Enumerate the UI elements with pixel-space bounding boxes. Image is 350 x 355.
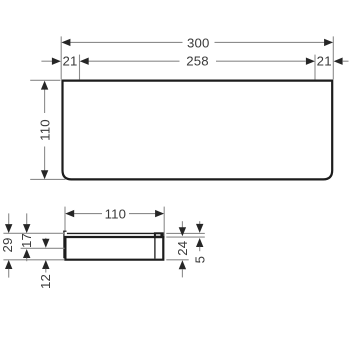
svg-text:12: 12 (38, 274, 53, 289)
dimension 12 bottom arrow (42, 260, 49, 269)
svg-text:110: 110 (105, 207, 127, 222)
dimension 29 top tail (8, 213, 10, 224)
extension line bottom for 29 and 12 (3, 259, 64, 261)
extension line right for 258 (314, 55, 316, 80)
svg-text:258: 258 (186, 54, 209, 69)
extension line left for 258 (79, 55, 81, 80)
dimension 5 bottom arrow (196, 238, 203, 247)
svg-text:5: 5 (192, 256, 207, 264)
dimension 258 left arrow (80, 58, 89, 65)
dimension 110 depth left arrow (65, 210, 74, 217)
side view front edge white notch (156, 234, 161, 235)
side view body outline (65, 237, 163, 260)
extension line left for 110 depth (64, 207, 66, 231)
dimension 12 bottom tail (45, 269, 47, 273)
dimension 300 line (66, 41, 183, 43)
dimension 258 right arrow (306, 58, 315, 65)
extension line right for 300 (332, 36, 334, 79)
dimension 258 line (88, 60, 179, 62)
side view plate front thick end (154, 232, 165, 238)
extension line top for 29 and 17 (3, 232, 64, 234)
extension line plate top for 5 (166, 232, 205, 234)
dimension 12 top tail (45, 238, 47, 239)
dimension 21 right tail (342, 60, 348, 62)
extension line bottom for 110 height (30, 178, 65, 180)
dimension 110 depth right arrow (155, 210, 164, 217)
dimension 24 top arrow (179, 227, 186, 236)
svg-text:29: 29 (0, 237, 15, 252)
dimension 12 top arrow (42, 239, 49, 248)
dimension 21 right arrow (334, 58, 343, 65)
extension line bottom for 24 (166, 259, 188, 261)
svg-text:17: 17 (19, 233, 34, 248)
extension line left for 300 (60, 36, 62, 79)
dimension 29 top arrow (5, 224, 12, 233)
side view back tab top (63, 230, 66, 232)
dimension 29 bottom tail (8, 269, 10, 278)
dimension 24 top tail (181, 221, 183, 228)
side view plate top line (67, 232, 164, 234)
dimension 110 height bottom arrow (41, 170, 48, 179)
dimension 24 bottom tail (181, 269, 183, 277)
dimension 300 left arrow (61, 39, 70, 46)
svg-text:110: 110 (37, 119, 52, 141)
dimension 5 top arrow (196, 224, 203, 233)
dimension 5 bottom tail (199, 247, 201, 251)
dimension 17 top arrow (23, 224, 30, 233)
dimension 24 bottom arrow (179, 260, 186, 269)
side view back tab left edge (63, 231, 65, 259)
svg-text:24: 24 (175, 241, 190, 256)
dimension 110 height line (44, 85, 46, 114)
extension line right for 110 depth (163, 207, 165, 236)
svg-text:21: 21 (62, 54, 77, 69)
dimension 300 right arrow (324, 39, 333, 46)
dimension 5 top tail (199, 221, 201, 224)
dimension 110 depth line (70, 213, 102, 215)
extension line middle for 17 and 12 (21, 247, 65, 249)
dimension 21 left arrow (52, 58, 61, 65)
top view shelf outline (63, 81, 333, 180)
svg-text:300: 300 (187, 35, 210, 50)
side view front lip inner line (154, 234, 156, 258)
dimension 17 bottom tail (26, 258, 28, 261)
extension line body top for 24 and 5 (166, 236, 205, 238)
extension line top for 110 height (30, 79, 60, 81)
dimension 17 top tail (26, 213, 28, 224)
dimension 110 height top arrow (41, 81, 48, 90)
svg-text:21: 21 (317, 54, 332, 69)
dimension 21 left tail (41, 60, 52, 62)
dimension 17 bottom arrow (23, 249, 30, 258)
dimension 29 bottom arrow (5, 260, 12, 269)
